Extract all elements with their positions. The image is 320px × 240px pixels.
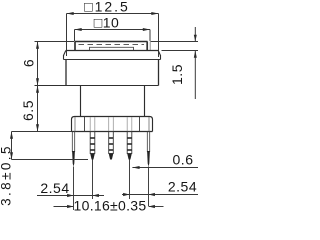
housing inner channel line left — [84, 117, 86, 132]
body right edge — [158, 60, 160, 86]
side tab inner line right — [148, 117, 150, 132]
pin channels seen through housing — [89, 117, 91, 131]
dimension square-12.5 left extension line — [66, 14, 68, 57]
dimension 3.8±0.5 dim line with arrows — [0, 132, 14, 206]
svg-text:10.16±0.35: 10.16±0.35 — [74, 198, 147, 214]
cover bottom edge — [64, 59, 161, 61]
terminal pin 4 — [127, 132, 132, 160]
terminal pin 5 (right support tab) — [147, 132, 150, 167]
lower body neck left edge — [80, 86, 82, 117]
extension line from pin4 center — [129, 160, 131, 200]
metal cover top edge — [66, 50, 158, 52]
plunger step outline — [90, 47, 134, 50]
extension line from pin1 center — [73, 167, 75, 211]
dimension 6.5 dim line with arrows — [20, 86, 39, 132]
seating plane line — [35, 85, 159, 87]
dimension square-10 dim line with arrows — [75, 15, 151, 32]
terminal pin 3 (center) — [109, 132, 114, 160]
switch cap left side — [74, 42, 76, 51]
lower body neck right edge — [144, 86, 146, 117]
dimension square-10 extension lines — [74, 30, 76, 42]
dimension 0.6 leader line with arrow — [132, 152, 198, 170]
bottom housing box outline — [72, 117, 153, 132]
dimension square-12.5 dim line with arrows — [67, 0, 159, 15]
cover left side — [63, 55, 65, 60]
svg-text:0.6: 0.6 — [173, 152, 194, 168]
cover right side — [160, 55, 162, 60]
body left edge — [65, 60, 67, 86]
dimension 2.54 left dim line with arrows — [37, 180, 104, 197]
dimension 2.54 right dim line with arrows — [122, 179, 198, 197]
cover right bevel — [158, 51, 160, 56]
dimension 1.5 extension line upper — [151, 41, 199, 43]
cap hidden plunger dashed line — [79, 44, 145, 46]
bottom housing bottom edge — [72, 131, 153, 133]
housing inner channel line right — [139, 117, 141, 132]
pin tip reference line — [12, 159, 89, 161]
svg-text:2.54: 2.54 — [168, 179, 197, 195]
dimension 6 extension line at cap top — [35, 41, 75, 43]
dimension 6 dim line with arrows — [21, 42, 40, 86]
svg-text:6.5: 6.5 — [20, 100, 36, 121]
terminal pin 2 — [90, 132, 95, 160]
terminal pin 1 (left support tab) — [72, 132, 75, 167]
dimension 10.16±0.35 dim line with arrows — [54, 198, 164, 214]
extension line from pin5 center — [148, 167, 150, 207]
extension line from pin2 center — [92, 160, 94, 200]
dimension 1.5 extension line lower — [162, 50, 199, 52]
dimension 1.5 dim line with arrows — [169, 27, 197, 99]
side tab inner line left — [74, 117, 76, 132]
switch cap right side — [146, 42, 148, 51]
svg-text:6: 6 — [21, 59, 37, 67]
dimension square-12.5 right extension line — [158, 14, 160, 58]
svg-text:3.8±0.5: 3.8±0.5 — [0, 144, 14, 206]
svg-text:□10: □10 — [94, 15, 120, 31]
svg-text:2.54: 2.54 — [40, 180, 69, 196]
cover left bevel — [64, 51, 66, 56]
switch cap top edge — [75, 41, 148, 43]
svg-text:□12.5: □12.5 — [84, 0, 130, 15]
housing bottom extension line to left dims — [12, 131, 72, 133]
svg-text:1.5: 1.5 — [169, 64, 185, 85]
